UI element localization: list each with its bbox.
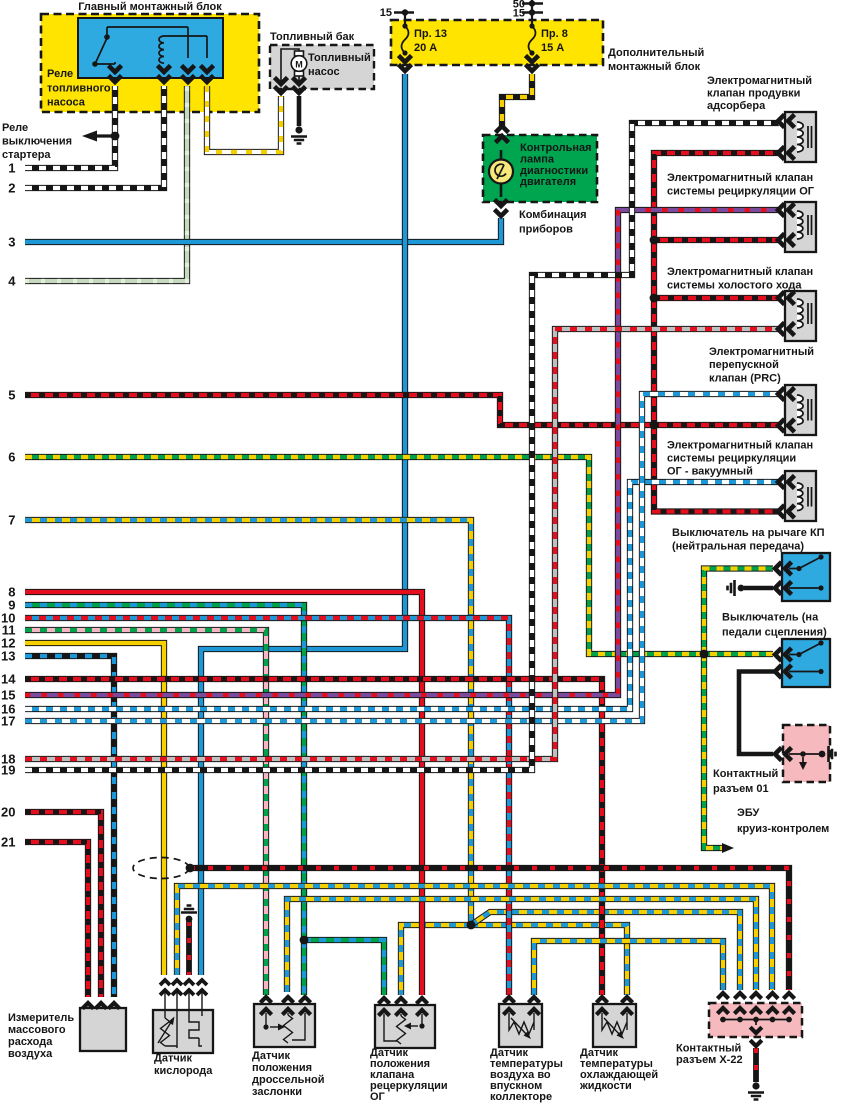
fuel pump motor [281,49,307,86]
svg-text:Контактный: Контактный [676,1043,741,1055]
svg-text:Электромагнитный клапан: Электромагнитный клапан [667,266,813,278]
fuel tank box [270,45,374,89]
svg-text:M: M [295,60,303,70]
tank pin1 connector [275,78,288,85]
svg-text:Выключатель (на: Выключатель (на [722,612,819,624]
EGR sensor pin 1 connector [378,998,389,1004]
wire 14 red/black [25,679,602,995]
lamp top connector [496,126,509,133]
wire 10 blue/red [25,618,509,995]
valve pin connector y=153 [778,147,785,160]
junction valve3 [650,294,659,303]
valve pin connector y=425.5 [778,419,785,432]
svg-text:6: 6 [8,450,15,465]
ground (X-22) [752,1082,759,1089]
solenoid valve: adsorber purge (Электромагнитный клапан продувки адсорбера) [785,112,816,162]
throttle mid pin yellow/blue to X-22 pin3 [287,899,756,992]
X-22 pin 2 connector [734,993,745,999]
svg-text:системы рециркуляции ОГ: системы рециркуляции ОГ [667,185,815,197]
wire 17 white/blue [25,394,779,721]
oxygen sensor box [153,1010,213,1053]
oxygen sensor pin 4 connector [197,980,207,985]
svg-text:адсорбера: адсорбера [707,100,766,112]
wire 1 black/white [25,86,115,168]
terminal 50/15 ticks [522,4,543,13]
oxygen pin2 yellow/blue to X-22 pin4 [177,886,772,990]
svg-text:Электромагнитный клапан: Электромагнитный клапан [667,172,813,184]
valve pin connector y=240 [778,234,785,247]
valve pin connector y=482 [778,476,785,489]
svg-text:топливного: топливного [47,82,111,94]
wire 13 black/blue [25,656,114,997]
svg-text:дроссельной: дроссельной [252,1074,325,1086]
svg-text:выключения: выключения [2,136,72,148]
solenoid valve: bypass PRC (Электромагнитный перепускной клапан PRC) [785,385,816,435]
svg-text:системы рециркуляции: системы рециркуляции [667,453,796,465]
wire 4 pale green [25,86,187,281]
diagnostics lamp box [483,135,597,202]
svg-text:кислорода: кислорода [154,1065,213,1077]
lamp [500,150,503,197]
svg-text:3: 3 [8,235,15,250]
oxygen sensor pin 2 connector [172,980,182,985]
svg-text:Контрольная: Контрольная [520,142,592,154]
solenoid valve: EGR system (Электромагнитный клапан системы рециркуляции ОГ) [785,202,816,252]
valve3 feed red/black [654,295,779,301]
EGR sensor pin 3 connector [416,998,427,1004]
svg-text:2: 2 [8,181,15,196]
svg-text:стартера: стартера [2,149,51,161]
svg-text:(нейтральная передача): (нейтральная передача) [672,541,804,553]
wire 18 grey/red [25,329,779,759]
svg-text:жидкости: жидкости [579,1080,632,1092]
starter relay branch [95,134,115,137]
branch to coolant sensor right pin [471,925,627,995]
svg-text:насос: насос [308,66,340,78]
fuel tank feed yellow/white [207,86,281,152]
throttle sensor pin 3 connector [299,997,310,1003]
EGR sensor pin 2 connector [395,998,406,1004]
svg-text:положения: положения [252,1062,312,1074]
wire 20 red/black [25,812,101,997]
valve pin connector y=394 [778,388,785,401]
svg-text:коллекторе: коллекторе [490,1091,552,1103]
intake air temperature sensor pin 2 connector [528,997,539,1003]
X-22 ground output connector [750,1027,762,1033]
switch pin connector y=588 [775,582,782,595]
wire 5 red/black [25,395,779,425]
svg-text:15 А: 15 А [541,42,564,54]
solenoid valve: EGR vacuum (Электромагнитный клапан системы рециркуляции ОГ - вакуумный) [785,471,816,521]
fuse 8 output connector [526,56,539,63]
connector01 pin [775,748,782,761]
wire 6 green/yellow [25,457,773,654]
branch to EGR sensor middle pin [401,925,471,995]
X-22 pin 3 connector [750,993,761,999]
terminal 15 tick [394,11,414,13]
wire 15 purple/red [25,210,779,695]
svg-text:Комбинация: Комбинация [519,209,587,221]
valve pin connector y=298 [778,292,785,305]
red/black trunk to valves [654,153,779,512]
branch to EGR sensor left pin [304,940,384,995]
wire 9 green/blue [25,605,304,995]
oxygen sensor shield ground wire black/red [186,921,192,975]
air-temp right pin yellow/blue to X-22 pin1 [534,941,723,995]
svg-text:Главный монтажный блок: Главный монтажный блок [78,1,222,13]
svg-text:массового: массового [8,1024,66,1036]
svg-text:13: 13 [1,649,15,664]
svg-text:Контактный: Контактный [713,768,778,780]
shield screen ellipse [133,858,189,879]
svg-text:7: 7 [8,513,15,528]
valve pin connector y=329 [778,323,785,336]
coolant temperature sensor pin 1 connector [596,997,607,1003]
svg-text:Выключатель на рычаге КП: Выключатель на рычаге КП [672,527,825,539]
svg-text:15: 15 [380,7,392,19]
tank pin2 connector [293,78,306,85]
svg-text:монтажный блок: монтажный блок [608,61,701,73]
svg-text:двигателя: двигателя [520,176,576,188]
MAF pin 2 connector [95,1003,106,1009]
svg-text:21: 21 [1,835,15,850]
oxygen sensor pin 1 connector [160,980,170,985]
valve pin connector y=121 [778,115,785,128]
X-22 pin 4 connector [767,993,778,999]
svg-text:Пр. 8: Пр. 8 [541,28,568,40]
svg-text:ЭБУ: ЭБУ [737,807,759,819]
cruise control ECU branch green/yellow [704,654,726,848]
wire 3 blue (instrument cluster) [25,218,501,242]
junction wire9 split [300,936,309,945]
relay pin 2 connector [158,66,171,73]
svg-text:17: 17 [1,714,15,729]
main fuse/relay block (Главный монтажный блок) [41,14,259,112]
switch pin connector y=654.5 [775,648,782,661]
fuse Pr.13 [402,26,409,53]
valve2 coil return red/black [654,237,779,243]
svg-text:20 А: 20 А [414,42,437,54]
wire 19 black/white [25,123,779,770]
switch pin connector y=568.5 [775,562,782,575]
wire 12 yellow [25,643,164,975]
ground (neutral switch) [738,585,745,592]
svg-text:расхода: расхода [8,1036,53,1048]
svg-text:19: 19 [1,763,15,778]
svg-text:воздуха: воздуха [8,1048,53,1060]
fuel tank ground wire [297,96,302,126]
svg-text:насоса: насоса [47,97,86,109]
svg-text:ОГ - вакуумный: ОГ - вакуумный [667,466,753,478]
ground (connector01) [819,751,826,758]
relay pin 3 connector [182,66,195,73]
svg-text:педали сцепления): педали сцепления) [722,627,827,639]
svg-text:Реле: Реле [47,68,73,80]
fuse 13 output connector [399,56,412,63]
wire 16 blue/white [25,482,779,709]
shielded-cable drain black/red to X-22 [190,868,789,990]
svg-text:5: 5 [8,388,15,403]
shield junction [186,864,195,873]
svg-text:разъем 01: разъем 01 [713,783,769,795]
relay pin 4 connector [201,66,214,73]
junction valve4 [650,421,659,430]
additional fuse block (Дополнительный монтажный блок) [391,20,603,65]
svg-text:лампа: лампа [520,153,555,165]
junction valve2 [650,236,659,245]
svg-text:разъем X-22: разъем X-22 [676,1054,743,1066]
relay internals [95,27,207,64]
contact connector X-22 [709,1003,802,1037]
svg-text:круиз-контролем: круиз-контролем [737,823,829,835]
svg-text:ОГ: ОГ [370,1091,386,1103]
branch to X-22 pin2 [471,912,740,990]
switch: clutch pedal switch (Выключатель на педали сцепления) [782,639,830,687]
svg-text:4: 4 [8,274,16,289]
svg-text:Пр. 13: Пр. 13 [414,28,447,40]
svg-text:15: 15 [1,688,15,703]
contact connector 01 [783,725,830,782]
MAF pin 3 connector [108,1003,119,1009]
oxygen sensor pin 3 connector [184,980,194,985]
svg-text:Измеритель: Измеритель [8,1012,74,1024]
svg-text:перепускной: перепускной [709,359,779,371]
fuse8 black/yellow feed to lamp [502,74,532,126]
neutral switch ground wire [744,586,773,591]
throttle sensor pin 1 connector [260,997,271,1003]
throttle sensor pin 2 connector [282,997,293,1003]
X-22 pin 5 connector [783,993,794,999]
EGR valve position sensor box [375,1005,435,1048]
coolant temperature sensor [593,1004,636,1047]
junction wire7 split [467,921,476,930]
svg-text:приборов: приборов [519,224,573,236]
svg-text:Топливный: Топливный [308,52,371,64]
switch: gear lever switch (Выключатель на рычаге КП) [782,553,830,601]
svg-text:Электромагнитный: Электромагнитный [709,346,814,358]
svg-text:20: 20 [1,805,15,820]
wire 8 red [25,592,422,995]
X-22 ground wire black/red [753,1048,759,1082]
svg-text:заслонки: заслонки [252,1086,302,1098]
svg-text:Датчик: Датчик [154,1053,192,1065]
ground (oxygen shield) [186,916,193,923]
svg-text:клапан (PRC): клапан (PRC) [709,372,781,384]
svg-text:Электромагнитный клапан: Электромагнитный клапан [667,440,813,452]
wire 11 pink/green [25,630,266,995]
intake air temperature sensor pin 1 connector [503,997,514,1003]
clutch switch to connector01 black wire [739,672,775,755]
MAF pin 1 connector [82,1003,93,1009]
svg-text:системы холостого хода: системы холостого хода [667,279,802,291]
valve pin connector y=511.5 [778,505,785,518]
fuse Pr.8 [529,26,536,53]
solenoid valve: idle system (Электромагнитный клапан системы холостого хода) [785,291,816,341]
neutral switch branch green/yellow [704,569,773,655]
wire 21 red/black [25,842,88,997]
svg-text:клапан продувки: клапан продувки [707,88,800,100]
wire 2 black/white [25,86,164,188]
switch pin connector y=671.5 [775,665,782,678]
svg-text:14: 14 [1,672,16,687]
junction cruise branch [700,650,709,659]
svg-text:диагностики: диагностики [520,165,588,177]
wire 7 yellow/blue [25,520,471,925]
coolant temperature sensor pin 2 connector [621,997,632,1003]
fuse13 blue feed to oxygen sensor heater [201,74,405,975]
svg-text:Реле: Реле [2,122,28,134]
fuel pump relay box [78,18,223,78]
lamp bottom connector [495,200,508,207]
ground (fuel tank) [295,126,302,133]
X-22 pin 1 connector [717,993,728,999]
mass air flow meter box [80,1008,126,1051]
throttle position sensor box [254,1004,315,1047]
svg-text:Топливный бак: Топливный бак [270,31,355,43]
valve pin connector y=210 [778,204,785,217]
intake air temperature sensor [499,1004,542,1047]
svg-text:Электромагнитный: Электромагнитный [707,75,812,87]
relay pin 1 connector [109,66,122,73]
svg-text:1: 1 [8,161,15,176]
svg-text:Дополнительный: Дополнительный [608,47,704,59]
svg-text:15: 15 [513,8,525,20]
svg-text:Датчик: Датчик [252,1050,290,1062]
